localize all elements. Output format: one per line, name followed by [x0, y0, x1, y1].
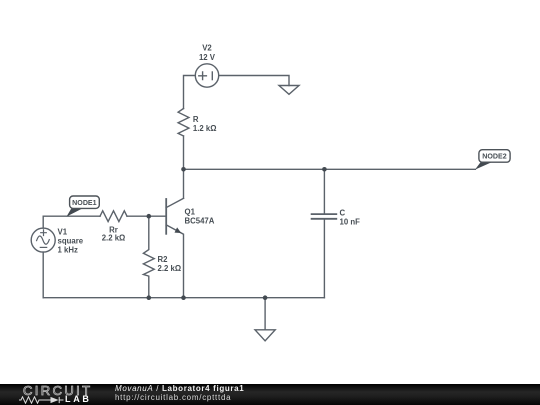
- svg-text:R2: R2: [158, 255, 169, 264]
- svg-text:1 kHz: 1 kHz: [58, 245, 78, 254]
- svg-text:10 nF: 10 nF: [340, 217, 361, 226]
- svg-text:NODE2: NODE2: [482, 153, 506, 161]
- svg-text:square: square: [58, 236, 84, 245]
- svg-text:Q1: Q1: [185, 208, 196, 217]
- svg-text:V2: V2: [202, 44, 212, 53]
- svg-text:NODE1: NODE1: [72, 199, 96, 207]
- svg-text:1.2 kΩ: 1.2 kΩ: [193, 124, 217, 133]
- svg-text:C: C: [340, 209, 346, 218]
- svg-text:R: R: [193, 115, 199, 124]
- svg-text:V1: V1: [58, 228, 68, 237]
- svg-text:2.2 kΩ: 2.2 kΩ: [158, 264, 182, 273]
- svg-text:2.2 kΩ: 2.2 kΩ: [102, 233, 126, 242]
- svg-text:BC547A: BC547A: [185, 217, 215, 226]
- svg-text:12 V: 12 V: [199, 53, 216, 62]
